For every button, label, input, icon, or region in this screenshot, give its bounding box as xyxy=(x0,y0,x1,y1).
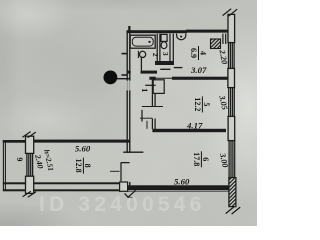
stove xyxy=(211,39,221,49)
neighbour wall stub left y75 xyxy=(122,74,128,76)
svg-text:2: 2 xyxy=(151,53,160,57)
bathroom bottom wall xyxy=(127,71,158,74)
corridor top / rooms wall xyxy=(149,77,155,80)
entrance marker dot xyxy=(104,71,118,85)
svg-text:5.60: 5.60 xyxy=(75,144,91,154)
svg-text:6.9: 6.9 xyxy=(189,48,198,58)
kitchen left wall xyxy=(170,34,173,65)
svg-text:8: 8 xyxy=(83,164,92,168)
bottom outer wall: solid band (right part) xyxy=(128,185,233,190)
handwritten check mark below wall xyxy=(125,190,136,197)
svg-text:12.8: 12.8 xyxy=(74,159,83,173)
neighbour wall stub left y53 xyxy=(122,53,128,55)
svg-text:4: 4 xyxy=(198,51,207,55)
toilet xyxy=(161,34,167,41)
room5 left wall xyxy=(152,80,155,107)
wall pier xyxy=(228,68,235,87)
bottom wall pier at room8 corner xyxy=(120,182,128,191)
svg-text:3: 3 xyxy=(161,52,170,56)
svg-text:1: 1 xyxy=(140,88,150,92)
svg-text:17.8: 17.8 xyxy=(192,152,201,166)
wall pier xyxy=(228,116,235,140)
balcony top line / room8 top wall xyxy=(3,140,26,143)
wall stub above top-left corner xyxy=(128,26,130,31)
washbasin xyxy=(137,51,139,58)
label room4 fraction (rotated): 4 over 6.9 xyxy=(189,46,207,60)
left wall pier upper xyxy=(26,136,34,153)
entrance leader line xyxy=(117,78,131,80)
room5 door ticks and leaf xyxy=(142,106,163,108)
balcony left wall xyxy=(3,140,5,191)
room5 window xyxy=(229,88,235,117)
room8 door opening in room6/room8 wall xyxy=(127,153,130,182)
room8 dimension tick xyxy=(110,170,120,172)
svg-text:3.07: 3.07 xyxy=(190,65,207,75)
room8 door tick xyxy=(123,151,143,153)
svg-text:5.60: 5.60 xyxy=(174,176,190,186)
bottom outer wall: hollow double line (left part) xyxy=(3,182,121,184)
toilet door leaf xyxy=(160,68,170,70)
svg-text:ID 32400546: ID 32400546 xyxy=(39,193,205,216)
room8 door leaf xyxy=(121,162,130,181)
svg-text:4.17: 4.17 xyxy=(186,120,203,130)
room6 window xyxy=(229,141,235,178)
kitchen door leaf xyxy=(174,67,183,69)
kitchen vent xyxy=(177,34,186,40)
paper background xyxy=(0,0,257,226)
left wall pier lower xyxy=(26,176,34,193)
bath/toilet divider wall xyxy=(157,34,160,64)
room6 door leaf tick xyxy=(146,121,148,129)
room5/room6 divider wall xyxy=(152,129,226,132)
svg-text:9: 9 xyxy=(15,157,24,161)
interior lightening of apartment rooms xyxy=(130,33,227,185)
kitchen window xyxy=(229,43,235,69)
label room6 fraction (rotated): 6 over 17.8 xyxy=(192,151,210,167)
room labels and dimensions xyxy=(15,46,230,186)
svg-text:12.2: 12.2 xyxy=(193,97,202,111)
left outer wall (double line) xyxy=(127,31,130,186)
kitchen right wall inner leaf xyxy=(223,34,226,44)
label room5 fraction (rotated): 5 over 12.2 xyxy=(193,96,211,112)
niche in room5 corner xyxy=(153,80,164,94)
bathtub xyxy=(130,35,155,48)
bottom pilaster (hatched) xyxy=(229,178,236,207)
top wall (outer, kitchen/bath block) xyxy=(127,30,188,33)
label room8 fraction (rotated): 8 over 12.8 xyxy=(74,158,92,174)
right outer wall: top pilaster xyxy=(228,14,235,42)
entrance door faint opening lines xyxy=(127,81,130,91)
svg-text:5: 5 xyxy=(202,102,211,106)
room8 window to balcony xyxy=(27,153,33,176)
bathroom door leaf xyxy=(140,57,142,70)
svg-text:6: 6 xyxy=(201,157,210,161)
toilet room bottom wall xyxy=(155,61,174,65)
